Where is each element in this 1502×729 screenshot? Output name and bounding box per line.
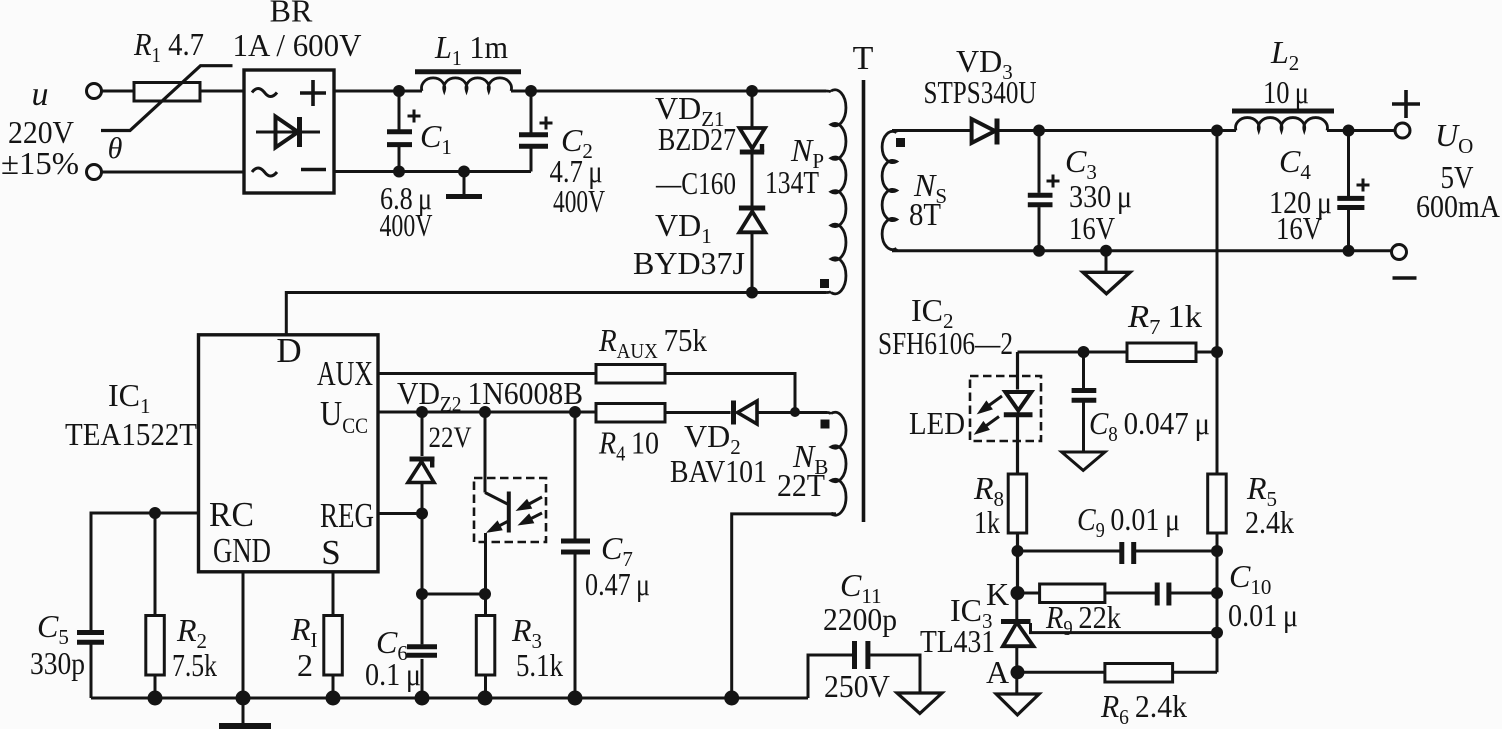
svg-text:10 μ: 10 μ bbox=[1263, 74, 1309, 110]
svg-text:5.1k: 5.1k bbox=[516, 647, 563, 683]
svg-text:C8 0.047 μ: C8 0.047 μ bbox=[1089, 405, 1210, 446]
svg-text:GND: GND bbox=[213, 531, 271, 570]
svg-text:250V: 250V bbox=[824, 668, 890, 704]
svg-text:K: K bbox=[986, 576, 1009, 612]
svg-text:134T: 134T bbox=[765, 164, 819, 200]
svg-text:SFH6106—2: SFH6106—2 bbox=[878, 325, 1013, 361]
svg-text:1A / 600V: 1A / 600V bbox=[233, 27, 362, 63]
svg-text:REG: REG bbox=[320, 496, 374, 535]
svg-text:L1 1m: L1 1m bbox=[434, 29, 508, 70]
svg-text:STPS340U: STPS340U bbox=[924, 74, 1037, 110]
svg-text:0.47 μ: 0.47 μ bbox=[585, 566, 650, 602]
svg-text:RC: RC bbox=[209, 495, 254, 534]
svg-text:R9 22k: R9 22k bbox=[1045, 599, 1121, 640]
svg-text:330p: 330p bbox=[30, 645, 85, 681]
svg-text:2: 2 bbox=[297, 647, 313, 683]
svg-text:330 μ: 330 μ bbox=[1069, 178, 1132, 214]
svg-text:—C160: —C160 bbox=[655, 165, 736, 201]
svg-text:T: T bbox=[853, 40, 874, 77]
svg-text:16V: 16V bbox=[1276, 210, 1322, 246]
svg-text:22V: 22V bbox=[429, 421, 472, 454]
svg-text:±15%: ±15% bbox=[1, 145, 79, 181]
svg-text:TL431: TL431 bbox=[920, 623, 995, 659]
svg-text:LED: LED bbox=[909, 405, 965, 441]
svg-text:R7 1k: R7 1k bbox=[1127, 298, 1202, 339]
svg-text:u: u bbox=[32, 76, 49, 113]
svg-text:R6 2.4k: R6 2.4k bbox=[1100, 688, 1187, 729]
svg-text:1k: 1k bbox=[974, 504, 1000, 540]
svg-text:R4 10: R4 10 bbox=[598, 425, 659, 466]
svg-text:22T: 22T bbox=[777, 467, 825, 503]
svg-text:VDZ2 1N6008B: VDZ2 1N6008B bbox=[397, 375, 583, 416]
svg-text:BYD37J: BYD37J bbox=[633, 245, 745, 281]
svg-text:TEA1522T: TEA1522T bbox=[65, 416, 197, 452]
svg-text:R1 4.7: R1 4.7 bbox=[133, 26, 204, 67]
svg-text:BAV101: BAV101 bbox=[670, 453, 767, 489]
svg-text:0.1 μ: 0.1 μ bbox=[365, 656, 421, 692]
svg-text:D: D bbox=[276, 331, 301, 370]
svg-text:A: A bbox=[986, 654, 1009, 690]
svg-text:AUX: AUX bbox=[317, 354, 373, 393]
svg-text:S: S bbox=[321, 533, 340, 572]
svg-text:C9 0.01 μ: C9 0.01 μ bbox=[1077, 501, 1180, 542]
svg-text:400V: 400V bbox=[380, 207, 433, 243]
svg-text:BR: BR bbox=[270, 0, 313, 29]
svg-text:16V: 16V bbox=[1069, 210, 1115, 246]
svg-text:600mA: 600mA bbox=[1416, 188, 1500, 224]
svg-text:2.4k: 2.4k bbox=[1245, 504, 1294, 540]
svg-text:2200p: 2200p bbox=[823, 601, 897, 637]
svg-text:0.01 μ: 0.01 μ bbox=[1228, 597, 1298, 633]
svg-text:400V: 400V bbox=[553, 183, 605, 219]
svg-text:BZD27: BZD27 bbox=[658, 121, 736, 157]
svg-text:8T: 8T bbox=[909, 196, 941, 232]
svg-text:7.5k: 7.5k bbox=[172, 647, 217, 683]
svg-text:θ: θ bbox=[108, 132, 123, 165]
